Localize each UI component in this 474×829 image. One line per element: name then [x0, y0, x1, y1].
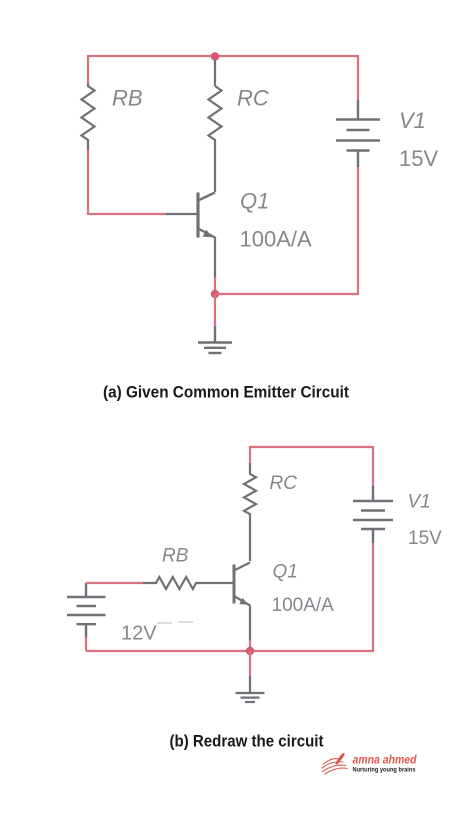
battery V1 (a): [336, 100, 380, 167]
wire left rail (b): [85, 637, 87, 651]
svg-text:V1: V1: [408, 492, 431, 513]
wire left rail upper (a): [87, 55, 89, 84]
svg-text:RC: RC: [270, 473, 298, 494]
logo icon pen over page lines: [322, 759, 347, 774]
wire top rail (b): [250, 446, 373, 448]
wire collector stub from node (a): [214, 60, 216, 86]
node bottom dot (b): [246, 647, 254, 655]
transistor Q1 (a): [166, 193, 215, 279]
resistor RC (a): [209, 86, 222, 192]
ground (a): [198, 326, 232, 353]
svg-text:100A/A: 100A/A: [240, 227, 312, 252]
ground (b): [236, 676, 265, 702]
transistor Q1 (b): [234, 563, 250, 642]
wire left rail lower + base wire (a): [88, 150, 168, 214]
logo pen nib: [335, 753, 344, 765]
node junction dot top (a): [211, 52, 219, 60]
svg-text:Q1: Q1: [273, 562, 298, 583]
wire right rail (b): [372, 446, 374, 652]
svg-text:RB: RB: [112, 86, 143, 111]
wire ground stem (a): [214, 294, 216, 327]
battery V1 (b): [353, 486, 393, 543]
wire emitter to node (b): [249, 640, 251, 652]
resistor RC (b): [244, 463, 256, 561]
svg-text:(a) Given Common Emitter Circu: (a) Given Common Emitter Circuit: [103, 384, 349, 402]
svg-text:Nurturing young brains: Nurturing young brains: [353, 766, 416, 773]
svg-text:100A/A: 100A/A: [272, 595, 335, 616]
svg-text:15V: 15V: [399, 146, 438, 171]
wire right rail (a): [357, 55, 359, 295]
battery 12V (b): [67, 583, 106, 638]
erased ghost marks (b): [157, 622, 193, 623]
wire emitter to node (a): [214, 277, 216, 294]
svg-text:15V: 15V: [408, 528, 442, 549]
wire battery top to RB (b): [86, 582, 144, 584]
svg-text:RC: RC: [237, 86, 269, 111]
svg-text:12V: 12V: [121, 623, 157, 645]
svg-text:V1: V1: [399, 108, 426, 133]
svg-text:amna ahmed: amna ahmed: [353, 755, 418, 767]
svg-text:RB: RB: [162, 546, 189, 567]
wire RC stub (b): [249, 446, 251, 464]
svg-text:(b) Redraw the circuit: (b) Redraw the circuit: [170, 733, 324, 751]
wire bottom rail (a): [215, 293, 358, 295]
node emitter dot (a): [211, 290, 219, 298]
wire ground stem (b): [249, 651, 251, 677]
wire bottom rail (b): [86, 650, 373, 652]
resistor RB (a): [82, 83, 95, 151]
svg-text:Q1: Q1: [240, 189, 269, 214]
resistor RB (b): [143, 577, 234, 589]
wire top rail (a): [88, 55, 358, 57]
